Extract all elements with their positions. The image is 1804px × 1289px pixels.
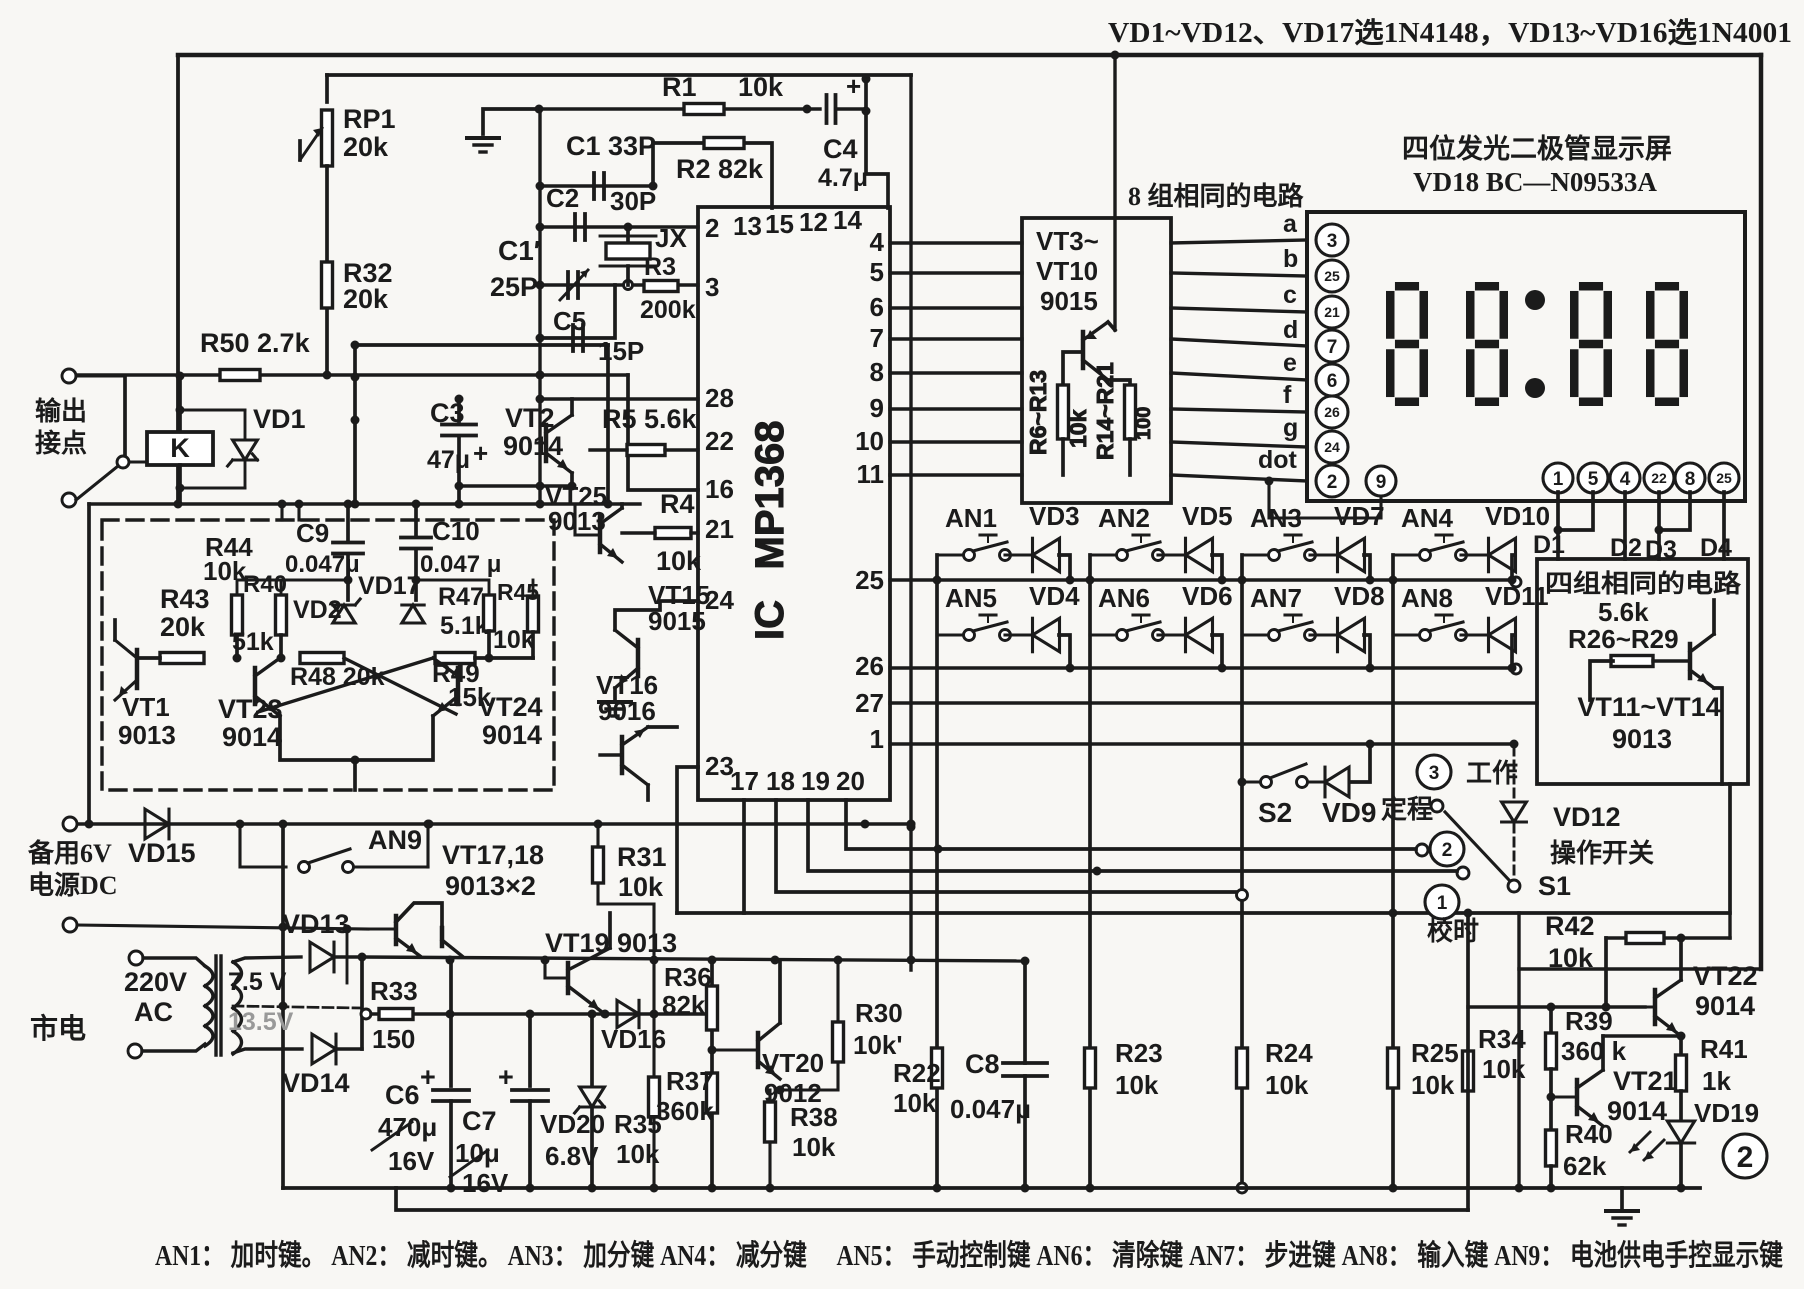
svg-text:R42: R42 [1545,911,1595,941]
svg-text:VD11: VD11 [1485,581,1549,611]
svg-text:20k: 20k [160,612,206,642]
svg-text:5: 5 [870,257,884,287]
svg-text:VD13: VD13 [282,909,350,939]
svg-text:10k: 10k [1548,943,1594,973]
svg-text:10k: 10k [1265,1070,1309,1100]
svg-text:10k': 10k' [853,1030,903,1060]
svg-text:R4: R4 [660,489,695,519]
svg-text:工作: 工作 [1466,759,1518,788]
svg-text:19: 19 [801,766,830,796]
svg-text:10k: 10k [493,626,535,654]
svg-text:AN3: AN3 [1250,503,1302,533]
svg-text:AN1： 加时键。 AN2： 减时键。 AN3： 加分键 A: AN1： 加时键。 AN2： 减时键。 AN3： 加分键 AN4： 减分键 AN… [155,1238,1783,1272]
svg-text:10k: 10k [1482,1054,1526,1084]
svg-text:21: 21 [705,514,734,544]
svg-text:C8: C8 [965,1049,1000,1079]
svg-text:R25: R25 [1411,1038,1459,1068]
svg-text:62k: 62k [1563,1151,1607,1181]
svg-text:R50 2.7k: R50 2.7k [200,328,311,358]
svg-text:R31: R31 [617,842,667,872]
svg-text:+: + [473,438,488,468]
svg-text:6: 6 [1327,371,1338,392]
svg-text:D1: D1 [1533,531,1565,559]
svg-text:24: 24 [1324,439,1340,455]
svg-text:10k: 10k [792,1132,836,1162]
svg-text:S1: S1 [1538,871,1571,901]
svg-text:校时: 校时 [1427,916,1479,946]
svg-text:9015: 9015 [1040,286,1098,316]
svg-text:R34: R34 [1478,1024,1526,1054]
svg-text:12: 12 [799,207,828,237]
svg-text:28: 28 [705,383,734,413]
svg-text:VT11~VT14: VT11~VT14 [1577,692,1720,722]
svg-text:10k: 10k [1411,1070,1455,1100]
svg-text:R47: R47 [438,583,484,611]
svg-text:10k: 10k [1065,409,1091,448]
svg-text:47μ: 47μ [427,446,470,474]
svg-text:C2: C2 [546,183,579,213]
svg-text:VT24: VT24 [478,692,543,722]
svg-text:10k: 10k [203,556,247,586]
svg-text:AN8: AN8 [1401,583,1453,613]
svg-text:10k: 10k [656,546,702,576]
svg-text:VT20: VT20 [762,1048,824,1078]
svg-text:9013: 9013 [1612,724,1672,754]
svg-text:VD12: VD12 [1553,802,1621,832]
svg-text:30P: 30P [610,186,656,216]
svg-text:200k: 200k [640,296,696,324]
svg-text:21: 21 [1324,304,1340,320]
svg-text:18: 18 [766,766,795,796]
svg-text:C10: C10 [432,516,480,546]
svg-text:四组相同的电路: 四组相同的电路 [1545,569,1742,598]
svg-text:1: 1 [870,724,884,754]
svg-text:VD6: VD6 [1182,581,1233,611]
svg-text:100: 100 [1133,407,1155,440]
svg-text:e: e [1283,349,1297,377]
svg-text:VD5: VD5 [1182,501,1233,531]
svg-text:AN1: AN1 [945,503,997,533]
svg-text:VT21: VT21 [1613,1066,1678,1096]
svg-text:c: c [1283,281,1297,309]
svg-text:4: 4 [870,227,885,257]
svg-text:VD10: VD10 [1485,501,1550,531]
svg-text:+: + [498,1062,514,1092]
svg-text:2: 2 [1442,840,1453,861]
svg-text:9013×2: 9013×2 [445,871,536,901]
svg-text:R24: R24 [1265,1038,1313,1068]
svg-text:d: d [1283,316,1298,344]
svg-text:8: 8 [1685,469,1696,490]
svg-text:8 组相同的电路: 8 组相同的电路 [1128,181,1305,211]
svg-text:VD9: VD9 [1322,797,1376,828]
svg-text:AN4: AN4 [1401,503,1454,533]
svg-text:20k: 20k [343,284,389,314]
svg-text:R26~R29: R26~R29 [1568,624,1679,654]
svg-text:R30: R30 [855,998,903,1028]
svg-text:VD2: VD2 [293,596,342,624]
svg-text:360k: 360k [656,1096,714,1126]
svg-text:VD1: VD1 [253,404,306,434]
svg-text:10: 10 [855,426,884,456]
svg-text:470μ: 470μ [378,1112,437,1142]
svg-text:9: 9 [870,393,884,423]
svg-text:9016: 9016 [598,696,656,726]
svg-text:VD18 BC—N09533A: VD18 BC—N09533A [1413,167,1657,197]
svg-text:9013: 9013 [118,720,176,750]
svg-text:R6~R13: R6~R13 [1025,370,1051,455]
svg-text:AN9: AN9 [368,825,422,855]
svg-text:AC: AC [134,997,173,1027]
svg-text:9014: 9014 [503,431,563,461]
svg-text:R39: R39 [1565,1006,1613,1036]
svg-text:C1 33P: C1 33P [566,131,656,161]
svg-text:10k: 10k [1115,1070,1159,1100]
svg-text:26: 26 [1324,404,1340,420]
svg-text:电源DC: 电源DC [28,871,118,900]
svg-text:四位发光二极管显示屏: 四位发光二极管显示屏 [1402,133,1672,164]
svg-text:VD16: VD16 [601,1024,666,1054]
svg-text:VT3~: VT3~ [1036,226,1099,256]
svg-text:0.047μ: 0.047μ [950,1094,1031,1124]
svg-text:R36: R36 [664,962,712,992]
svg-text:25: 25 [1324,268,1340,284]
svg-text:0.047 μ: 0.047 μ [420,551,501,578]
svg-text:R22: R22 [893,1058,941,1088]
svg-text:K: K [170,433,190,463]
svg-text:R3: R3 [644,253,676,281]
svg-text:4: 4 [1620,469,1631,490]
svg-text:VD17: VD17 [358,572,421,600]
svg-text:VD3: VD3 [1029,501,1080,531]
svg-text:R35: R35 [614,1109,662,1139]
svg-text:R37: R37 [666,1066,714,1096]
svg-text:输出: 输出 [35,396,87,426]
svg-text:220V: 220V [124,967,187,997]
svg-text:IC: IC [748,600,792,640]
svg-text:7: 7 [870,323,884,353]
svg-text:VT22: VT22 [1693,961,1758,991]
svg-text:11: 11 [857,459,885,489]
svg-text:3: 3 [1327,231,1338,252]
svg-text:VD7: VD7 [1334,501,1385,531]
svg-text:S2: S2 [1258,797,1292,828]
svg-text:20: 20 [836,766,865,796]
svg-text:3: 3 [1429,763,1440,784]
svg-text:R40: R40 [1565,1119,1613,1149]
svg-text:2: 2 [1737,1141,1754,1174]
svg-text:AN2: AN2 [1098,503,1150,533]
svg-text:VT1: VT1 [122,692,170,722]
svg-text:9014: 9014 [222,722,282,752]
svg-text:5.6k: 5.6k [1598,597,1649,627]
svg-text:1: 1 [1437,893,1448,914]
svg-text:VD15: VD15 [128,838,196,868]
svg-text:b: b [1283,245,1298,273]
svg-text:C1′: C1′ [498,235,541,266]
svg-text:14: 14 [833,205,862,235]
svg-text:AN7: AN7 [1250,583,1302,613]
svg-text:150: 150 [372,1024,415,1054]
svg-text:15P: 15P [598,336,644,366]
svg-text:25: 25 [855,565,884,595]
svg-text:操作开关: 操作开关 [1550,839,1654,868]
svg-text:R33: R33 [370,976,418,1006]
svg-text:市电: 市电 [30,1012,86,1045]
svg-text:82k: 82k [662,990,706,1020]
svg-text:R43: R43 [160,584,210,614]
svg-text:16: 16 [705,474,734,504]
svg-text:10k: 10k [738,72,784,102]
svg-text:定程: 定程 [1381,794,1433,824]
svg-text:C6: C6 [385,1080,420,1110]
svg-text:备用6V: 备用6V [27,839,112,868]
svg-text:R1: R1 [662,72,697,102]
svg-text:9: 9 [1376,472,1387,493]
svg-text:2: 2 [705,213,719,243]
svg-text:22: 22 [1651,470,1667,486]
svg-text:VT17,18: VT17,18 [442,840,544,870]
svg-text:JX: JX [655,223,687,253]
svg-text:3: 3 [705,272,719,302]
svg-text:9014: 9014 [1695,991,1755,1021]
svg-text:5: 5 [1588,469,1599,490]
svg-text:VD4: VD4 [1029,581,1080,611]
svg-text:25P: 25P [490,272,538,302]
svg-text:AN6: AN6 [1098,583,1150,613]
svg-text:6: 6 [870,292,884,322]
svg-text:g: g [1283,414,1298,442]
svg-text:360 k: 360 k [1561,1036,1627,1066]
svg-text:20k: 20k [343,132,389,162]
svg-text:dot: dot [1258,446,1298,474]
svg-text:+: + [846,71,861,101]
svg-text:VD20: VD20 [540,1109,605,1139]
svg-text:R41: R41 [1700,1034,1748,1064]
svg-text:17: 17 [730,766,759,796]
svg-text:VD1~VD12、VD17选1N4148，VD13~VD16: VD1~VD12、VD17选1N4148，VD13~VD16选1N4001 [1108,17,1792,49]
svg-text:a: a [1283,210,1298,238]
svg-text:10k: 10k [618,872,664,902]
svg-text:13.5V: 13.5V [228,1008,294,1036]
svg-text:26: 26 [855,651,884,681]
svg-text:VT2: VT2 [505,403,555,433]
svg-text:16V: 16V [462,1168,509,1198]
svg-text:R5 5.6k: R5 5.6k [602,404,698,434]
svg-text:RP1: RP1 [343,104,396,134]
svg-text:C7: C7 [462,1106,497,1136]
svg-text:9013: 9013 [548,506,606,536]
svg-text:8: 8 [870,357,884,387]
svg-text:C5: C5 [553,306,586,336]
svg-text:22: 22 [705,426,734,456]
svg-text:VD19: VD19 [1694,1098,1759,1128]
svg-text:9014: 9014 [1607,1096,1667,1126]
svg-text:10k: 10k [616,1139,660,1169]
svg-text:C9: C9 [296,518,329,548]
svg-text:10μ: 10μ [455,1138,500,1168]
svg-text:6.8V: 6.8V [545,1141,599,1171]
svg-text:VD14: VD14 [282,1068,350,1098]
svg-text:7.5 V: 7.5 V [228,968,287,996]
svg-text:VT23: VT23 [218,694,283,724]
svg-text:10k: 10k [893,1088,937,1118]
svg-text:25: 25 [1716,470,1732,486]
svg-text:R2 82k: R2 82k [676,154,764,184]
svg-text:f: f [1283,381,1292,409]
svg-text:16V: 16V [388,1146,435,1176]
svg-text:7: 7 [1327,337,1338,358]
svg-text:R14~R21: R14~R21 [1092,362,1118,460]
svg-text:13: 13 [733,211,762,241]
svg-text:27: 27 [855,688,884,718]
svg-text:1k: 1k [1702,1066,1731,1096]
svg-text:MP1368: MP1368 [748,421,792,570]
svg-text:VD8: VD8 [1334,581,1385,611]
svg-text:4.7μ: 4.7μ [818,164,868,192]
svg-text:VT10: VT10 [1036,256,1098,286]
svg-text:1: 1 [1553,469,1564,490]
svg-text:15: 15 [765,209,794,239]
svg-text:接点: 接点 [35,428,87,458]
svg-text:R38: R38 [790,1102,838,1132]
svg-text:5.1k: 5.1k [440,612,489,640]
svg-text:9014: 9014 [482,720,542,750]
svg-text:AN5: AN5 [945,583,997,613]
svg-text:R23: R23 [1115,1038,1163,1068]
svg-text:C4: C4 [823,134,858,164]
svg-text:+: + [420,1062,436,1092]
svg-text:2: 2 [1327,472,1338,493]
svg-text:0.047μ: 0.047μ [285,551,360,578]
